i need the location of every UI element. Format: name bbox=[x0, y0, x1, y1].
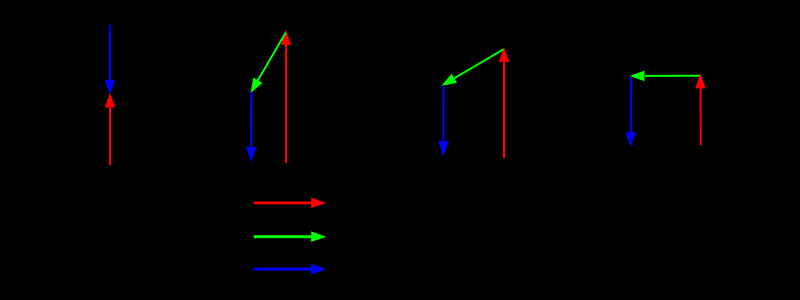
panel 2: green arrow down-left bbox=[251, 33, 286, 93]
panel 3: blue arrow down bbox=[439, 85, 448, 155]
panel 4: green arrow left bbox=[631, 71, 701, 80]
panel 4: blue arrow down bbox=[626, 76, 635, 146]
panel 1: blue arrow down bbox=[105, 25, 114, 94]
legend: blue arrow right bbox=[254, 264, 325, 274]
panel 2: blue arrow down bbox=[247, 92, 256, 161]
panel 1: red arrow up bbox=[105, 94, 114, 165]
panel 3: red arrow up bbox=[499, 48, 508, 158]
legend: red arrow right bbox=[254, 198, 325, 208]
panel 3: green arrow left-down bbox=[442, 49, 503, 85]
panel 2: red arrow up bbox=[281, 31, 290, 163]
panel 4: red arrow up bbox=[696, 74, 705, 145]
legend: green arrow right bbox=[254, 232, 325, 242]
